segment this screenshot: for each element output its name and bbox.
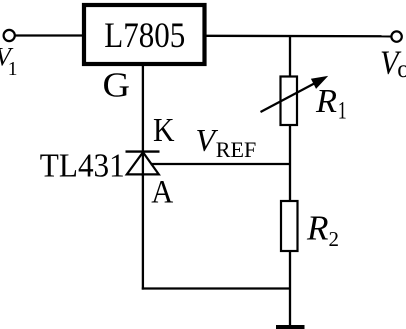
label V1 bbox=[0, 43, 18, 80]
svg-text:A: A bbox=[151, 174, 173, 210]
input terminal V1 bbox=[4, 30, 15, 41]
ground bbox=[276, 325, 305, 329]
label VREF bbox=[196, 122, 257, 162]
shunt reference U2 TL431 bbox=[126, 152, 160, 175]
svg-text:R: R bbox=[315, 83, 337, 120]
label R1 bbox=[315, 83, 347, 125]
svg-text:R: R bbox=[306, 209, 329, 247]
wire top rail to R1 bbox=[289, 36, 291, 77]
output terminal Vo bbox=[391, 31, 401, 41]
wire G pin to cathode bbox=[142, 64, 144, 176]
svg-text:L7805: L7805 bbox=[104, 15, 185, 55]
svg-text:G: G bbox=[103, 65, 131, 104]
svg-text:TL431: TL431 bbox=[40, 147, 125, 184]
resistor R2 bbox=[281, 201, 298, 251]
wire R1 to R2 bbox=[289, 125, 291, 202]
label Vo bbox=[380, 45, 406, 83]
regulator U1 L7805 bbox=[84, 5, 205, 64]
svg-text:REF: REF bbox=[216, 137, 256, 162]
wire output top rail bbox=[205, 35, 392, 38]
label R2 bbox=[306, 209, 339, 251]
wire anode down and right to ground rail bbox=[142, 174, 290, 289]
svg-text:2: 2 bbox=[329, 227, 340, 251]
wire R2 to ground bbox=[289, 251, 291, 326]
resistor R1 (adjustable) bbox=[261, 77, 327, 126]
wire input bbox=[15, 34, 83, 36]
wire VREF node bbox=[151, 163, 292, 165]
svg-text:1: 1 bbox=[8, 59, 18, 80]
svg-text:1: 1 bbox=[338, 98, 347, 125]
svg-text:K: K bbox=[153, 112, 175, 149]
svg-text:o: o bbox=[397, 56, 406, 83]
